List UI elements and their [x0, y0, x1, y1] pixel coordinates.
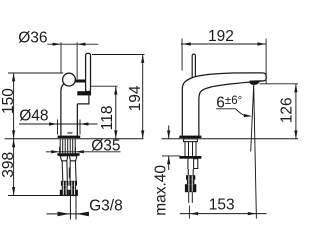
side deck line: [162, 138, 299, 140]
side tube below washer: [187, 159, 189, 169]
outlet axis line A: [251, 85, 254, 151]
side tube narrow: [187, 169, 189, 175]
192 dimension line: [181, 43, 266, 45]
left fitting facet stripes: [63, 181, 66, 195]
150 arrow up: [12, 73, 15, 81]
Ø48 arrow left: [49, 122, 57, 125]
126 arrow down: [294, 130, 297, 138]
deck line: [5, 138, 144, 140]
G3/8 arrow left: [58, 212, 70, 217]
side hose fitting: [185, 175, 196, 192]
dimension line Ø48: [19, 123, 98, 125]
Ø48 arrow right: [80, 122, 88, 125]
mounting washer: [57, 153, 79, 156]
hose-end extension line: [8, 195, 78, 197]
base flange: [58, 136, 81, 138]
194 arrow up: [141, 55, 144, 63]
side flange: [179, 136, 201, 138]
153 dimension line: [180, 213, 267, 215]
deck double arrow down: [12, 130, 15, 138]
153 ext line left: [188, 206, 190, 219]
svg-text:Ø36: Ø36: [18, 29, 47, 46]
nut left trapezoid: [60, 156, 68, 161]
153 arrow left: [190, 212, 198, 215]
deck double arrow up: [12, 139, 15, 147]
max40 arrow down to deck: [167, 130, 170, 138]
Ø36 ext line right: [76, 42, 78, 79]
192 ext line left: [181, 39, 183, 71]
body right edge: [76, 104, 78, 136]
150 top extension line: [8, 72, 63, 74]
Ø48 ext line right: [79, 120, 81, 135]
svg-text:153: 153: [209, 197, 235, 214]
outlet axis line B tilted: [254, 85, 257, 218]
svg-text:Ø35: Ø35: [91, 137, 120, 154]
192 ext line right: [265, 39, 267, 85]
center rod line: [68, 168, 70, 179]
126 top ext line: [260, 83, 298, 85]
6deg leader arrowhead: [244, 114, 253, 117]
svg-text:126: 126: [279, 97, 296, 123]
6deg leader underline: [216, 108, 236, 110]
aerator bump: [249, 81, 260, 85]
left hose fitting: [60, 181, 69, 196]
126 dimension vertical line: [295, 84, 297, 139]
lower supply tube: [69, 196, 71, 220]
192 arrow left: [182, 42, 190, 45]
lever side view: [192, 54, 195, 77]
192 arrow right: [257, 42, 265, 45]
hose lines: [62, 161, 76, 181]
svg-text:G3/8: G3/8: [89, 198, 123, 215]
side fitting facet stripes: [189, 176, 192, 192]
dimension line Ø36: [48, 43, 99, 45]
side washer: [179, 156, 201, 159]
right hose fitting: [69, 181, 78, 196]
shank collar: [184, 139, 198, 142]
Ø36 arrow right: [77, 43, 85, 46]
398 arrow down: [12, 187, 15, 195]
svg-text:398: 398: [0, 152, 17, 178]
lever bar front view: [86, 53, 91, 91]
nut right trapezoid: [69, 156, 77, 161]
Ø36 ext line left: [60, 42, 62, 73]
194 top extension line: [92, 54, 144, 56]
G3/8 arrow right: [77, 212, 89, 217]
max40 arrow up to washer line: [167, 156, 170, 164]
svg-text:150: 150: [0, 88, 17, 114]
body and spout outline: [182, 73, 266, 136]
handle knob circle: [63, 73, 76, 86]
svg-text:194: 194: [127, 85, 144, 111]
shank lines: [60, 139, 75, 153]
KEUCO logo mark: [67, 132, 72, 134]
Ø48 ext line left: [57, 120, 59, 135]
cartridge housing step: [77, 95, 89, 104]
body left edge: [61, 84, 64, 136]
153 arrow right: [248, 212, 256, 215]
194 arrow down: [141, 130, 144, 138]
Ø35 ext line left: [59, 147, 61, 156]
handle connector bar: [75, 80, 86, 83]
max40 dimension vertical line: [168, 126, 170, 139]
Ø35 arrow left: [51, 150, 59, 153]
side lower tube: [188, 192, 190, 203]
Ø36 arrow left: [53, 43, 61, 46]
svg-text:Ø48: Ø48: [19, 107, 48, 124]
118 dimension vertical line: [115, 86, 117, 139]
right fitting facet stripes: [72, 181, 75, 195]
svg-text:max.40: max.40: [152, 165, 169, 216]
194 dimension vertical line: [142, 55, 144, 139]
118 arrow down: [114, 130, 117, 138]
126 arrow up: [294, 84, 297, 92]
max40 bottom ext line: [162, 155, 181, 157]
side shank lines: [185, 142, 196, 156]
6deg leader line: [236, 109, 245, 116]
150/398 dimension vertical line: [13, 73, 15, 196]
svg-text:192: 192: [208, 28, 234, 45]
svg-text:118: 118: [99, 105, 116, 130]
118 arrow up: [114, 86, 117, 94]
lever base ledge: [77, 91, 91, 95]
Ø35 ext line right: [74, 147, 76, 156]
Ø35 arrow right: [75, 150, 83, 153]
118 top extension line: [90, 85, 117, 87]
dimension line Ø35: [46, 151, 121, 153]
second hose elbow piece: [194, 159, 198, 169]
G3/8 dimension line: [47, 213, 90, 215]
